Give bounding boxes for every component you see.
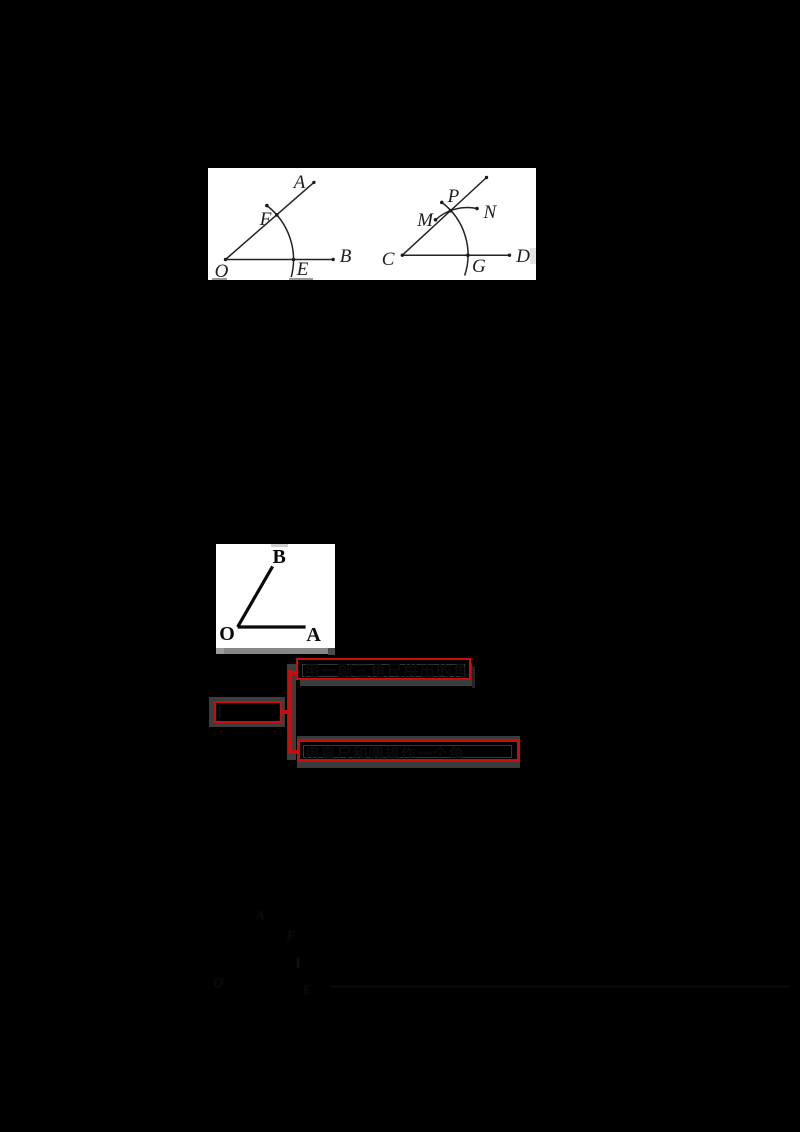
svg-text:M: M [416, 210, 434, 231]
svg-text:F: F [286, 929, 296, 944]
svg-text:A: A [255, 909, 265, 924]
svg-text:B: B [340, 246, 352, 267]
svg-text:D: D [515, 246, 530, 267]
svg-text:B: B [273, 546, 286, 568]
svg-text:G: G [472, 256, 486, 277]
svg-text:A: A [306, 624, 321, 646]
svg-text:N: N [483, 202, 498, 223]
svg-text:O: O [219, 623, 235, 645]
svg-text:O: O [213, 976, 223, 991]
svg-text:E: E [302, 983, 312, 998]
svg-text:P: P [447, 186, 460, 207]
svg-text:F: F [259, 209, 272, 230]
svg-text:A: A [292, 172, 306, 193]
svg-text:C: C [382, 249, 395, 270]
